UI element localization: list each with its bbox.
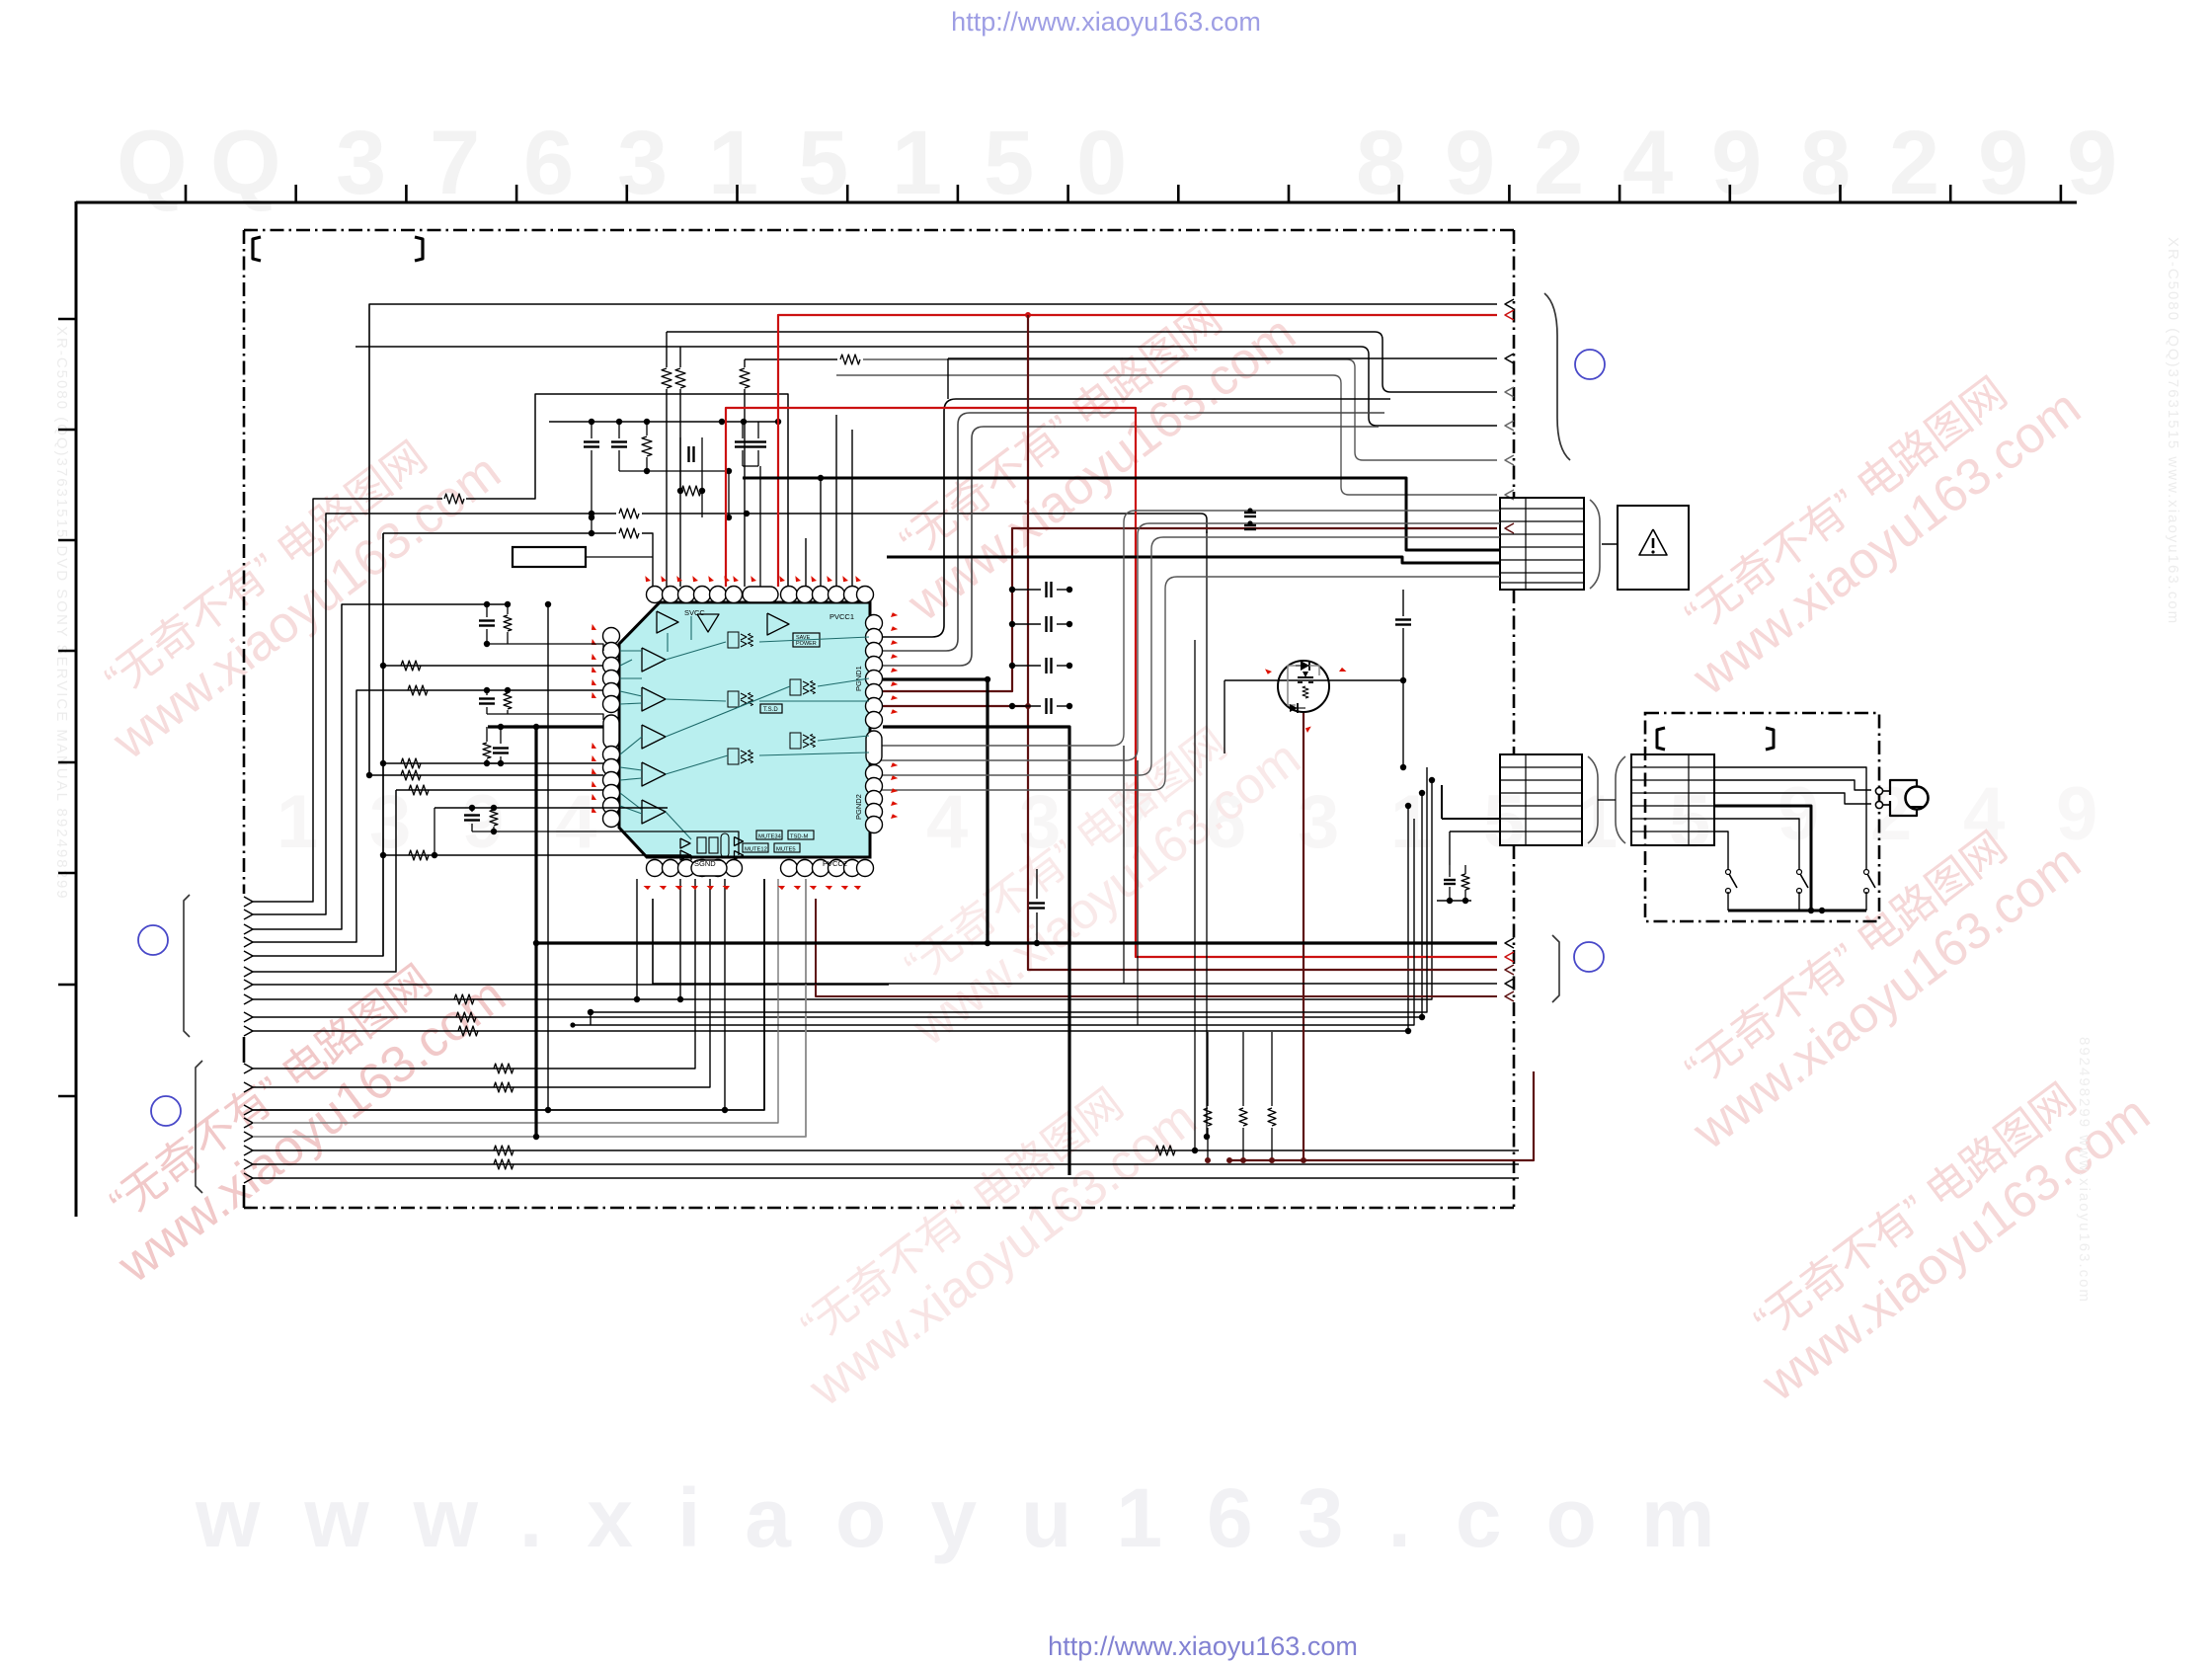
watermark pink diagonals — [72, 403, 512, 771]
svg-text:PGND1: PGND1 — [854, 666, 863, 691]
wire staircase w5 — [253, 533, 383, 956]
feed v675 — [666, 332, 668, 367]
curve u1 — [879, 399, 1390, 637]
svg-text:1: 1 — [892, 113, 942, 213]
v1421 to connector — [1402, 680, 1404, 767]
F-rail extensions — [1123, 746, 1125, 984]
brace group 2 — [196, 1061, 202, 1193]
wire g2-1 — [253, 879, 695, 1069]
CN2 feed row842 — [1450, 831, 1500, 832]
resistor R-b horiz — [681, 486, 701, 496]
IC interior nets — [620, 650, 642, 652]
wire staircase w2 — [253, 514, 616, 914]
svg-text:4: 4 — [1622, 113, 1673, 213]
svg-text:PVCC2: PVCC2 — [823, 859, 847, 868]
pair r493/c507 low — [486, 727, 488, 742]
feed v689 — [679, 347, 681, 367]
CN2 brackets — [1588, 756, 1598, 843]
IC U1 pins bottom — [647, 860, 664, 877]
cap x1050 low — [1036, 869, 1038, 899]
SW rect box — [513, 547, 586, 567]
wire y568 box feed — [586, 556, 653, 558]
res y674 — [383, 665, 603, 667]
pair c493/r514 top — [486, 604, 488, 617]
svg-text:SGND: SGND — [694, 859, 716, 868]
pin oval top — [743, 587, 778, 602]
IC U1 pins right — [866, 615, 883, 632]
svg-text:3: 3 — [617, 113, 668, 213]
thick net y484 — [743, 478, 1500, 550]
IC interior amps — [657, 611, 678, 633]
svg-text:Q: Q — [210, 113, 281, 213]
svg-text:7: 7 — [430, 113, 480, 213]
curve u2 — [879, 413, 1384, 651]
brace group 1 — [184, 895, 190, 1037]
wire staircase w6 — [253, 790, 396, 972]
output group bottom arrows — [1505, 938, 1514, 948]
wire g2-5 — [253, 879, 806, 1137]
svg-text:MUTE12: MUTE12 — [745, 847, 767, 853]
svg-text:9: 9 — [1711, 113, 1762, 213]
res y800 — [396, 789, 603, 791]
feed v831 — [820, 478, 822, 587]
motor bracket — [1890, 780, 1917, 795]
svg-text:http://www.xiaoyu163.com: http://www.xiaoyu163.com — [1048, 1631, 1358, 1661]
wire g2-7 — [253, 1163, 1519, 1165]
IC interior transistor pairs — [728, 632, 739, 648]
wire g2-3 — [253, 879, 764, 1110]
wire g2-4 — [253, 879, 778, 1123]
feed v754 — [744, 359, 746, 367]
warning triangle — [1639, 529, 1667, 555]
wire cluster bottom — [619, 470, 729, 472]
motor terminals — [1875, 787, 1882, 794]
thick net y564 — [887, 557, 1500, 563]
ruler top — [76, 201, 2077, 204]
thick net pgnd1 — [883, 679, 987, 943]
svg-text:3: 3 — [369, 780, 411, 864]
svg-text:1: 1 — [1390, 780, 1432, 864]
svg-text:9: 9 — [1777, 772, 1819, 856]
wire staircase w1 — [253, 499, 442, 902]
motor M1 — [1906, 787, 1929, 810]
CN2 feed row790 — [1429, 777, 1435, 783]
svg-text:1: 1 — [708, 113, 758, 213]
fan wires to arrows — [667, 332, 1497, 392]
feed v863 — [851, 430, 853, 587]
horizontal y1038 — [573, 819, 1414, 1025]
feed caps pair x752/768 — [742, 422, 744, 438]
wire g2-6 — [253, 1149, 1519, 1151]
svg-text:5: 5 — [798, 113, 848, 213]
thick left bus y736 — [488, 725, 604, 728]
black row y996 — [653, 899, 1497, 984]
wire staircase w3 — [253, 604, 508, 929]
ruler left — [75, 201, 78, 1217]
cap x1421 — [1402, 590, 1404, 616]
svg-text:T.S.D: T.S.D — [763, 707, 778, 713]
curve u3 — [879, 427, 1379, 666]
connector CN1 — [1500, 498, 1584, 590]
input bus group 1 arrows — [244, 897, 253, 907]
svg-text:SVCC: SVCC — [684, 608, 705, 617]
svg-text:PGND2: PGND2 — [854, 794, 863, 820]
switch S3 — [1864, 870, 1869, 875]
svg-text:892498299 www.xiaoyu163.com: 892498299 www.xiaoyu163.com — [2076, 1037, 2093, 1304]
capacitor C-a — [591, 422, 592, 438]
svg-text:TSD-M: TSD-M — [790, 834, 809, 840]
pin oval left — [603, 715, 619, 749]
svg-text:2: 2 — [1534, 113, 1584, 213]
drop v689 — [679, 879, 681, 999]
capacitor C-b — [618, 422, 620, 438]
drop v598 — [590, 1012, 592, 1025]
brace top right — [1544, 293, 1570, 460]
thick net y736 — [883, 727, 1069, 1175]
dark red wire mosfet drop — [1303, 713, 1534, 1160]
svg-text:8: 8 — [1800, 113, 1851, 213]
cap col x1060 — [1012, 589, 1041, 591]
switch S1 — [1726, 870, 1731, 875]
input bus group 2 arrows — [244, 1064, 253, 1073]
thick bottom row y955 — [536, 941, 1497, 944]
v388 — [382, 533, 384, 956]
vertical x1222 — [1206, 531, 1208, 1137]
svg-text:MUTE5: MUTE5 — [776, 847, 796, 853]
horizontal y1025 — [591, 767, 1427, 1012]
res y866 — [383, 854, 691, 856]
switch bottom bus — [1727, 892, 1729, 911]
IC U1 pins left — [603, 628, 620, 645]
CN1 cap pair — [1244, 512, 1256, 514]
connector CN3 — [1631, 754, 1714, 845]
feed v816 — [805, 538, 807, 587]
drop v734 — [724, 879, 726, 1110]
svg-text:http://www.xiaoyu163.com: http://www.xiaoyu163.com — [951, 7, 1261, 37]
svg-text:XR-C5080 (QQ)37631515 DVD SONY: XR-C5080 (QQ)37631515 DVD SONY SERVICE M… — [53, 326, 70, 901]
brace bottom right — [1552, 935, 1559, 1002]
svg-text:PVCC1: PVCC1 — [829, 612, 854, 621]
svg-text:POWER: POWER — [796, 641, 817, 647]
dark red vertical x1041 upper — [1027, 315, 1029, 706]
svg-text:6: 6 — [523, 113, 574, 213]
red wire SVCC — [726, 408, 1497, 957]
IC U1 body — [619, 602, 870, 857]
ref circle C — [1575, 350, 1605, 379]
IC U1 pins top — [647, 587, 664, 603]
svg-text:2: 2 — [1870, 772, 1912, 856]
svg-text:www.xiaoyu163.com: www.xiaoyu163.com — [195, 1471, 1760, 1564]
mechanism dash-dot box — [1645, 713, 1879, 921]
drop v645 — [636, 879, 638, 999]
svg-text:4: 4 — [926, 780, 968, 864]
Q interior — [1288, 666, 1296, 705]
ref circle D — [1574, 942, 1604, 972]
wire w9 — [253, 793, 1422, 1017]
svg-text:Q: Q — [117, 113, 188, 213]
wire y363 — [948, 357, 1497, 359]
CN2 feed row829 thick — [1442, 818, 1500, 820]
CN2 feed row816 — [1405, 803, 1411, 809]
dark red wire bottom row — [816, 899, 1497, 996]
dark red wire d2 — [883, 706, 1497, 970]
feed v770 — [759, 466, 761, 587]
switch S2 — [1797, 870, 1802, 875]
wire w10 — [253, 806, 1408, 1031]
thick vertical x543 — [534, 727, 537, 1137]
wire g2-8 — [253, 1177, 1519, 1179]
svg-text:MUTE34: MUTE34 — [758, 834, 782, 840]
dark red wire branch — [1229, 1159, 1303, 1161]
svg-text:2: 2 — [1889, 113, 1939, 213]
CN2-CN3 link — [1598, 799, 1616, 801]
feed v847 — [835, 415, 837, 587]
warning box — [1602, 543, 1618, 545]
svg-text:1: 1 — [276, 780, 318, 864]
svg-text:0: 0 — [1076, 113, 1127, 213]
res trio — [1207, 1032, 1209, 1106]
CN3 wires to motor/switches — [1714, 767, 1866, 870]
output group top arrows — [1505, 299, 1514, 309]
svg-text:5: 5 — [984, 113, 1034, 213]
rail y427 — [549, 421, 778, 423]
svg-text:9: 9 — [462, 780, 504, 864]
svg-text:XR-C5080 (QQ)37631515 www.xiao: XR-C5080 (QQ)37631515 www.xiaoyu163.com — [2165, 237, 2181, 625]
ref circle A — [138, 925, 168, 955]
red wire pin788 — [778, 315, 1497, 587]
top long wire y304 — [369, 304, 1497, 775]
wire w8 — [253, 780, 1432, 999]
wire w7 — [253, 984, 889, 986]
CN1 wires from left — [879, 511, 1500, 746]
svg-text:4: 4 — [555, 780, 596, 864]
res y785 — [369, 774, 603, 776]
main board dash-dot border — [244, 229, 1514, 232]
pin oval right — [866, 731, 882, 764]
vertical v555 — [547, 604, 549, 1110]
capacitor C-c horiz — [679, 437, 681, 454]
caps under CN2 — [1449, 865, 1451, 877]
svg-text:9: 9 — [1978, 113, 2028, 213]
pin oval bottom — [691, 860, 727, 876]
wire staircase w4 — [253, 690, 603, 942]
svg-text:3: 3 — [336, 113, 386, 213]
resistor R-a — [646, 422, 648, 436]
mosfet wires — [1224, 679, 1403, 681]
CN2 feed row777 — [1400, 764, 1406, 770]
res y773 — [383, 762, 603, 764]
CN1 bracket — [1590, 500, 1600, 589]
svg-text:9: 9 — [2067, 113, 2117, 213]
ref circle B — [151, 1096, 181, 1126]
vertical x1210 — [1194, 640, 1196, 1150]
pair c493/r514 mid — [484, 687, 490, 693]
pair c478/r500 — [434, 807, 668, 809]
IC interior bottom logic — [680, 838, 690, 848]
wire g2-2 — [253, 879, 710, 1087]
wire y540 — [383, 532, 616, 534]
transistor Q mosfet — [1278, 661, 1329, 712]
connector CN2 — [1500, 754, 1582, 845]
board label brackets — [253, 237, 261, 261]
svg-text:9: 9 — [1445, 113, 1495, 213]
CN2 feed row803 — [1419, 790, 1425, 796]
dark red wire d1 — [883, 528, 1497, 691]
